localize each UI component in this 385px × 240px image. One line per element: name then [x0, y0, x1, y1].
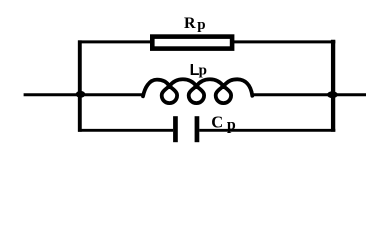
capacitor Cp right plate — [195, 116, 200, 142]
inductor label Lp — [190, 62, 207, 79]
svg-text:R: R — [184, 15, 196, 32]
svg-text:p: p — [227, 117, 236, 134]
wire: right vertical bus — [331, 40, 335, 132]
node: right junction dot — [327, 91, 338, 98]
resistor Rp body — [152, 37, 232, 49]
wire: left vertical bus — [78, 40, 82, 131]
wire: left external lead — [24, 93, 144, 96]
svg-text:p: p — [197, 17, 205, 33]
resistor label Rp — [184, 15, 206, 33]
wire: right external lead — [252, 93, 366, 96]
node: left junction dot — [76, 91, 86, 98]
wire: top branch — [78, 40, 335, 43]
wire: bottom branch right segment — [199, 129, 335, 132]
svg-text:C: C — [211, 112, 223, 131]
capacitor Cp left plate — [173, 116, 178, 142]
inductor Lp coil — [143, 79, 252, 103]
wire: bottom branch left segment — [78, 129, 173, 132]
capacitor label Cp — [211, 112, 236, 133]
svg-text:p: p — [199, 63, 207, 79]
